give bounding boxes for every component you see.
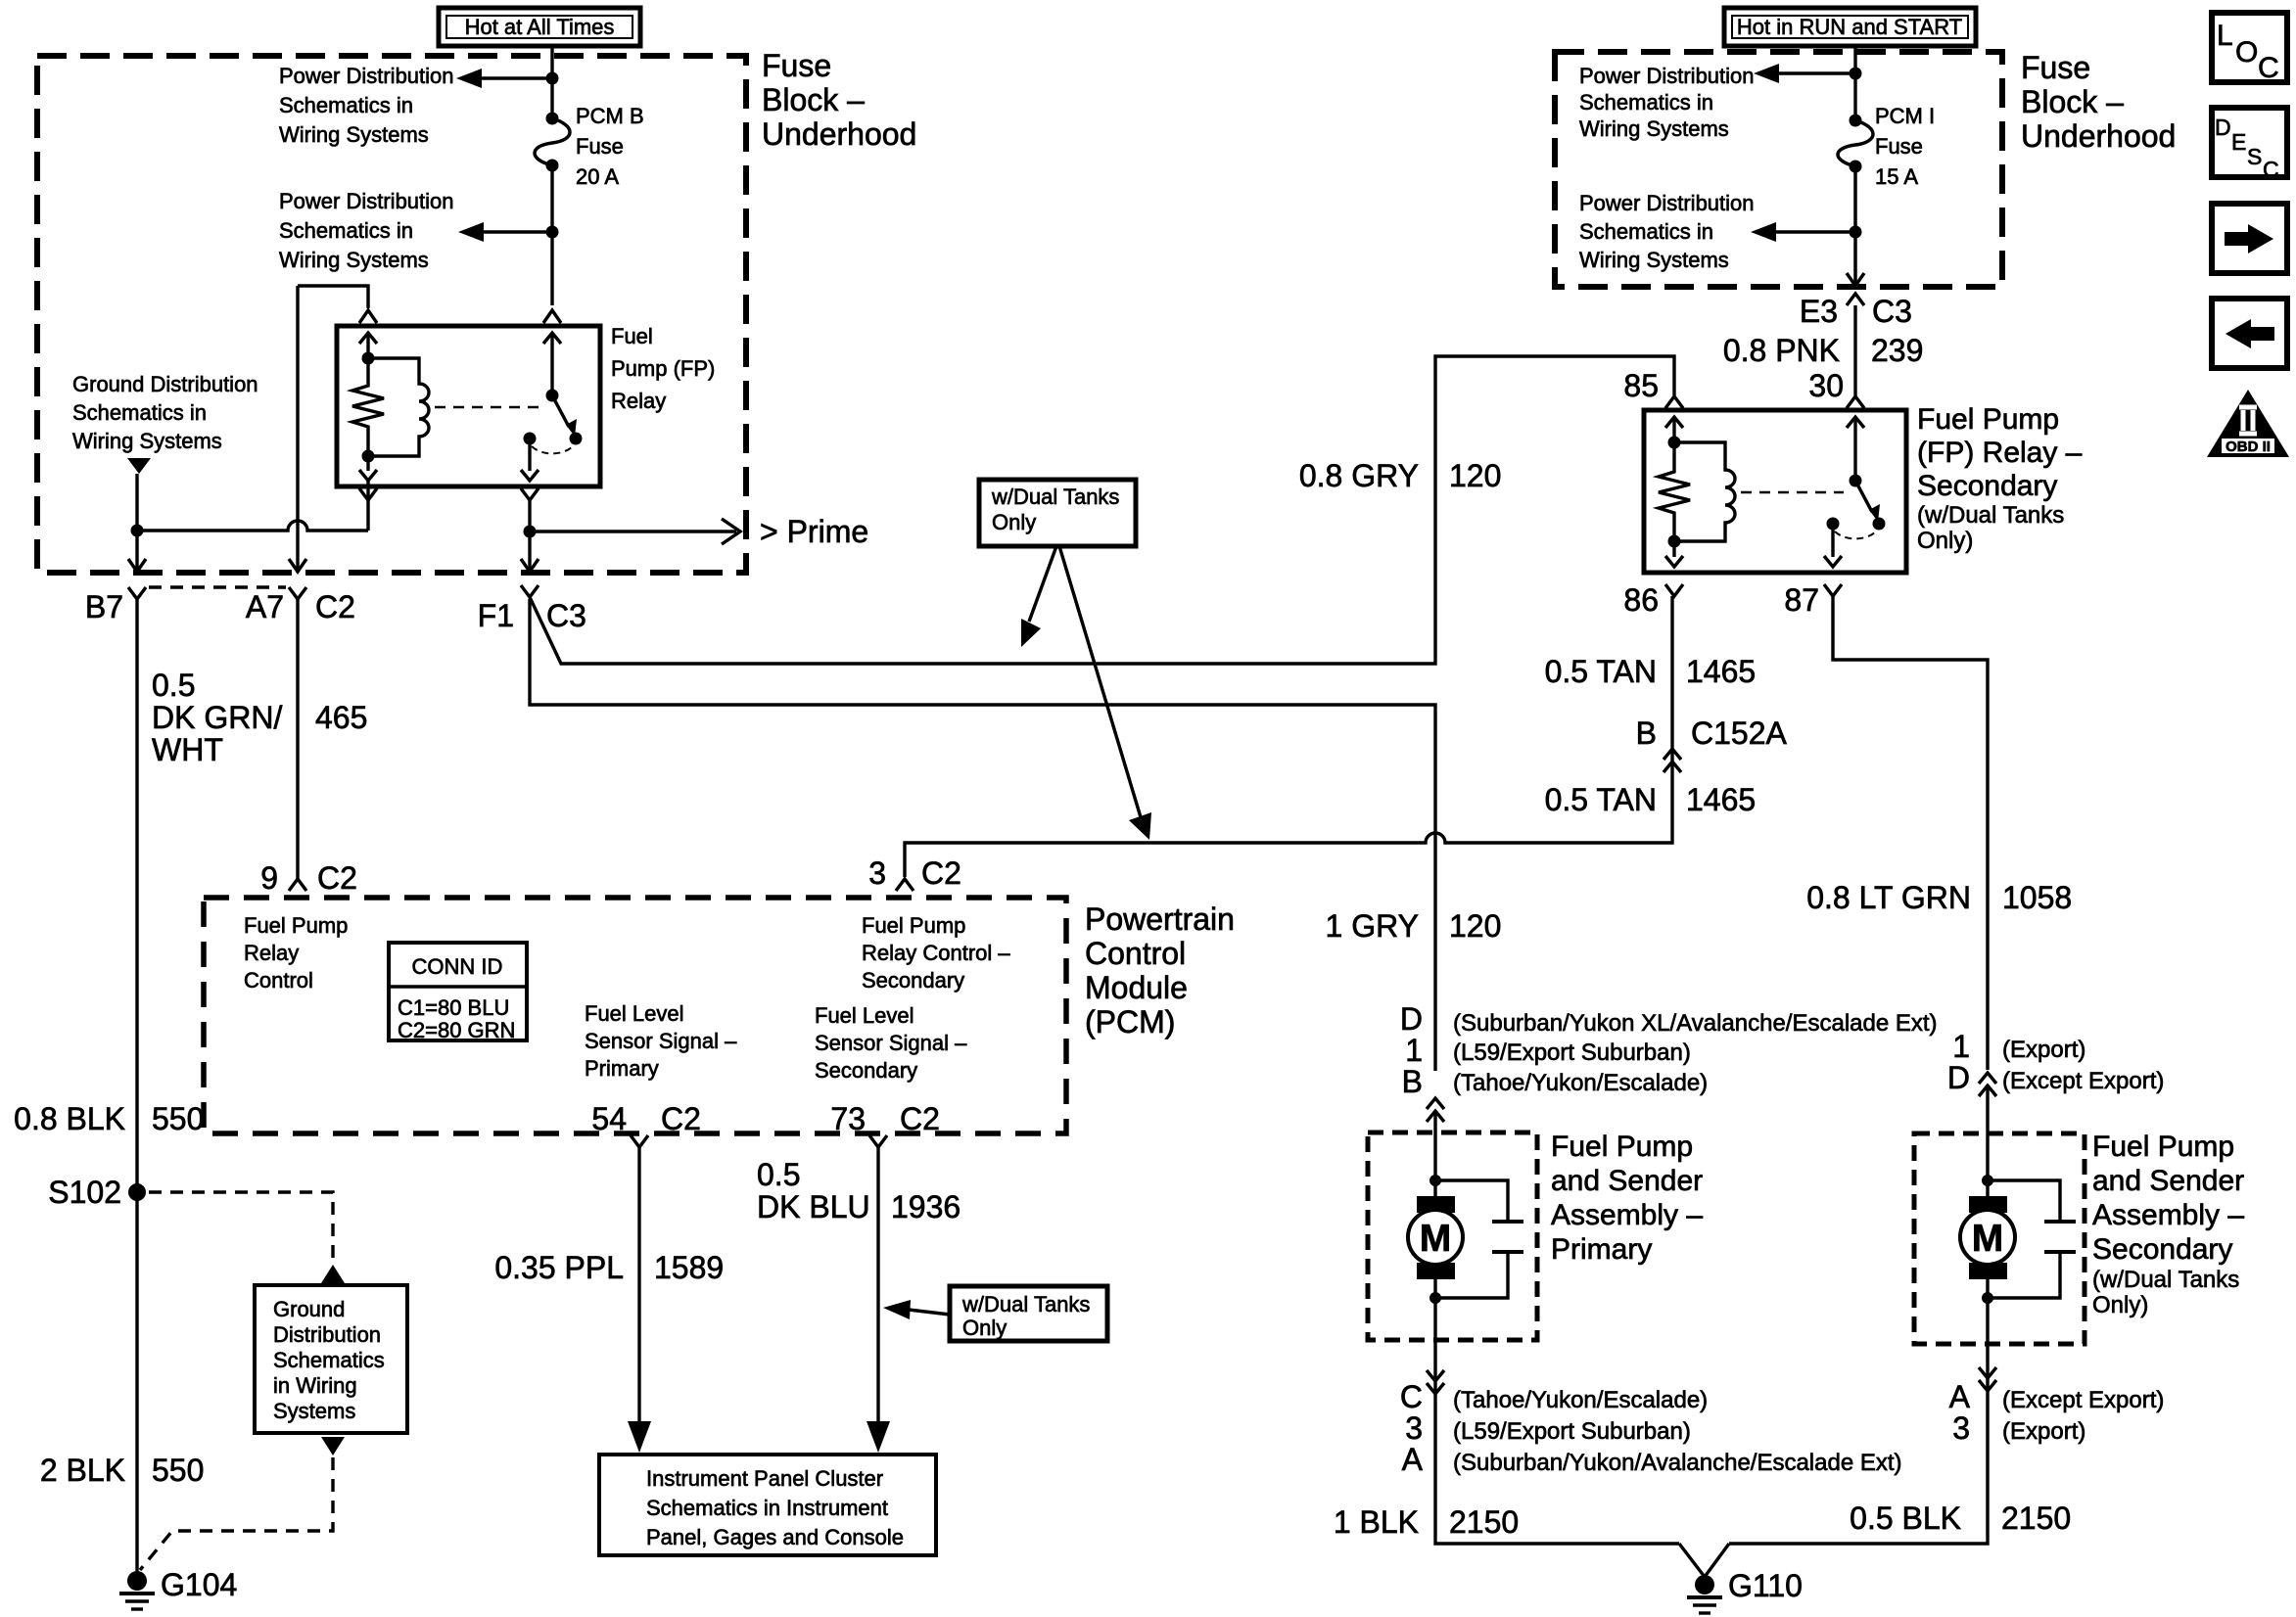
svg-text:1465: 1465 <box>1686 654 1756 689</box>
svg-text:Schematics in: Schematics in <box>279 93 413 117</box>
wire: A7 relay coil feed jog <box>298 286 368 308</box>
junction node: motor top (primary) <box>1429 1175 1441 1186</box>
svg-text:G110: G110 <box>1728 1568 1803 1603</box>
in-line connector 1/D (secondary pump feed) <box>1947 1029 2165 1096</box>
svg-text:Secondary: Secondary <box>815 1058 917 1083</box>
svg-text:550: 550 <box>152 1453 204 1488</box>
svg-text:B: B <box>1636 716 1657 751</box>
svg-text:2 BLK: 2 BLK <box>40 1453 125 1488</box>
svg-text:Secondary: Secondary <box>862 968 964 993</box>
wire: 0.5 DK GRN/WHT 465 from A7 down to PCM pin 9 <box>296 599 299 879</box>
svg-text:Block –: Block – <box>2021 84 2124 119</box>
svg-text:0.5: 0.5 <box>152 668 195 703</box>
sender capacitor-like element (secondary) <box>1988 1180 2076 1298</box>
svg-text:C2=80 GRN: C2=80 GRN <box>398 1018 515 1042</box>
svg-text:E: E <box>2231 129 2246 155</box>
svg-text:Only): Only) <box>2092 1292 2148 1318</box>
svg-text:(Except Export): (Except Export) <box>2002 1068 2164 1094</box>
arrow: to Power Distribution (upper left) <box>456 69 552 88</box>
svg-text:2150: 2150 <box>2001 1501 2071 1536</box>
relay pin chevron (coil feed, inside top) <box>359 333 377 344</box>
svg-text:(Suburban/Yukon/Avalanche/Esca: (Suburban/Yukon/Avalanche/Escalade Ext) <box>1453 1450 1902 1476</box>
label: Fuel Level Sensor Signal - Primary (PCM internal) <box>585 1001 737 1081</box>
svg-text:0.5: 0.5 <box>757 1157 800 1192</box>
fuse PCM I 15 A <box>1838 115 1873 173</box>
relay switch fixed contact (secondary) <box>1827 518 1840 531</box>
svg-text:Wiring Systems: Wiring Systems <box>1579 248 1729 272</box>
svg-text:(w/Dual Tanks: (w/Dual Tanks <box>2092 1267 2239 1293</box>
svg-text:Hot in RUN and START: Hot in RUN and START <box>1737 15 1962 39</box>
label: Fuel Pump and Sender Assembly - Secondary (w/Dual Tanks Only) <box>2092 1131 2244 1318</box>
svg-text:C2: C2 <box>315 589 355 624</box>
fuse PCM B 20 A <box>535 113 570 172</box>
relay coil L <box>368 358 429 456</box>
wire: relay output down to F1 <box>528 500 531 573</box>
svg-text:Power Distribution: Power Distribution <box>1579 191 1755 215</box>
open arrow at fuse box edge (F1) <box>521 559 539 572</box>
label: Power Distribution Schematics in Wiring Systems (left upper) <box>279 64 454 147</box>
ground G110 with converging wires <box>1679 1544 1803 1613</box>
in-line connector D/1/B (primary pump feed) <box>1400 1001 1938 1122</box>
svg-text:Power Distribution: Power Distribution <box>279 64 454 88</box>
svg-text:Relay: Relay <box>611 389 666 413</box>
svg-text:C: C <box>1400 1379 1423 1414</box>
dashed travel arc between contacts (secondary) <box>1835 531 1876 538</box>
svg-text:Fuel Pump: Fuel Pump <box>244 913 348 938</box>
junction node: lower tap <box>546 226 559 239</box>
svg-text:C: C <box>2263 157 2279 182</box>
label: Ground Distribution Schematics in Wiring Systems (left) <box>72 372 258 453</box>
svg-text:(Export): (Export) <box>2002 1418 2085 1445</box>
svg-text:85: 85 <box>1623 368 1659 403</box>
svg-text:Panel, Gages and Console: Panel, Gages and Console <box>646 1525 904 1549</box>
svg-text:(Tahoe/Yukon/Escalade): (Tahoe/Yukon/Escalade) <box>1453 1387 1708 1413</box>
connector fork below relay pin 87 <box>1824 584 1842 596</box>
svg-text:and Sender: and Sender <box>1551 1165 1703 1197</box>
in-line connector B / C152A <box>1636 716 1788 772</box>
svg-text:C3: C3 <box>546 598 586 633</box>
svg-text:DK BLU: DK BLU <box>757 1189 870 1224</box>
svg-text:Block –: Block – <box>762 82 865 117</box>
junction node on B7 wire <box>131 525 144 537</box>
relay pin chevron (85 inside top) <box>1665 417 1683 428</box>
svg-text:A: A <box>1949 1379 1971 1414</box>
arrow from w/Dual Tanks box to primary feed rail <box>1021 546 1056 647</box>
connector B7 <box>85 587 146 624</box>
relay coil L (secondary) <box>1674 442 1735 541</box>
label: 0.8 LT GRN / 1058 <box>1806 880 2072 915</box>
icon: LOC box <box>2212 13 2287 84</box>
dashed connector line C2 between B7 and A7 <box>149 585 286 589</box>
svg-text:0.8 PNK: 0.8 PNK <box>1723 333 1840 368</box>
junction node: motor top (secondary) <box>1982 1175 1993 1186</box>
wire: 0.35 PPL 1589 to instrument panel <box>628 1147 651 1453</box>
svg-text:Systems: Systems <box>273 1399 355 1423</box>
wire: fuse output down to FP relay <box>550 165 553 305</box>
svg-text:9: 9 <box>260 860 278 896</box>
label: 2 BLK 550 <box>40 1453 205 1488</box>
wire: coil branch inside secondary relay <box>1672 417 1675 468</box>
svg-text:Ground: Ground <box>273 1297 345 1321</box>
svg-text:(PCM): (PCM) <box>1085 1004 1175 1039</box>
svg-text:Only: Only <box>962 1316 1007 1340</box>
svg-text:0.5 TAN: 0.5 TAN <box>1545 782 1657 817</box>
svg-text:> Prime: > Prime <box>760 514 868 549</box>
relay switch pivot <box>546 390 559 402</box>
connector 9 / C2 at PCM <box>260 860 357 896</box>
svg-text:1936: 1936 <box>891 1189 961 1224</box>
connector fork below relay switch output <box>521 488 539 500</box>
svg-text:Fuel: Fuel <box>611 324 653 348</box>
label: 0.5 DK GRN/WHT <box>152 668 282 767</box>
svg-text:(Tahoe/Yukon/Escalade): (Tahoe/Yukon/Escalade) <box>1453 1070 1708 1096</box>
svg-text:DK GRN/: DK GRN/ <box>152 700 282 735</box>
relay actuation dashed link <box>435 406 540 409</box>
PCM dashed box <box>204 898 1066 1133</box>
svg-text:F1: F1 <box>478 598 514 633</box>
svg-text:Instrument Panel Cluster: Instrument Panel Cluster <box>646 1466 883 1491</box>
connector fork below relay (coil return) <box>359 488 377 500</box>
sender capacitor-like element (primary) <box>1435 1180 1523 1298</box>
relay U2: Fuel Pump (FP) Relay - Secondary box <box>1644 410 1906 573</box>
arrow from w/Dual Tanks box to secondary control rail <box>1059 546 1151 840</box>
arrow: to Power Distribution (upper right) <box>1754 64 1855 83</box>
svg-text:Sensor Signal –: Sensor Signal – <box>585 1029 737 1053</box>
junction node: upper tap (right) <box>1850 68 1862 80</box>
svg-text:Control: Control <box>244 968 313 993</box>
open arrow at fuse box edge (A7) <box>289 559 306 572</box>
fuel pump secondary dashed box <box>1914 1133 2085 1344</box>
svg-text:Wiring Systems: Wiring Systems <box>72 429 222 453</box>
svg-text:239: 239 <box>1871 333 1923 368</box>
svg-text:1: 1 <box>1405 1033 1423 1068</box>
in-line connector A/3 (secondary pump ground) <box>1949 1367 2165 1446</box>
svg-text:Schematics in: Schematics in <box>1579 90 1713 115</box>
svg-text:Relay Control –: Relay Control – <box>862 941 1010 965</box>
resistor R (relay) <box>352 382 384 431</box>
relay switch output chevron (inside bottom) <box>521 470 539 481</box>
svg-text:1058: 1058 <box>2002 880 2072 915</box>
dashed link: S102 to Ground Distribution box <box>149 1192 345 1283</box>
wire: 0.8 PNK 239 down to relay pin 30 <box>1853 305 1856 395</box>
svg-text:Power Distribution: Power Distribution <box>1579 64 1755 88</box>
svg-text:C152A: C152A <box>1691 716 1788 751</box>
junction node: coil top <box>362 352 375 365</box>
label: 0.5 TAN / 1465 (upper) <box>1545 654 1757 689</box>
wire: ground wire to B7 <box>135 474 138 573</box>
connector fork above relay switch pin 30 <box>543 310 561 323</box>
relay switch input chevron (30 inside top, secondary) <box>1847 417 1864 428</box>
label: Power Distribution Schematics in Wiring Systems (right upper) <box>1579 64 1755 141</box>
header box: Hot at All Times <box>439 8 640 46</box>
svg-text:G104: G104 <box>161 1567 237 1602</box>
fuse block underhood (right) dashed box <box>1555 52 2002 287</box>
svg-text:C2: C2 <box>921 855 961 891</box>
connector fork above relay pin (coil feed) <box>359 310 377 323</box>
svg-text:1589: 1589 <box>654 1250 724 1285</box>
svg-text:0.8 LT GRN: 0.8 LT GRN <box>1806 880 1971 915</box>
motor M1 (primary pump) <box>1408 1180 1463 1298</box>
wire: crossover link to relay coil return (hop over A7 wire) <box>137 521 368 531</box>
Ground Distribution Schematics box <box>255 1285 407 1433</box>
svg-text:Sensor Signal –: Sensor Signal – <box>815 1031 967 1055</box>
wire: resistor bottom to coil bottom node <box>366 431 369 471</box>
label: 0.8 BLK 550 <box>14 1101 204 1136</box>
svg-text:Schematics in: Schematics in <box>279 218 413 243</box>
wire: resistor bottom to coil bottom node (secondary) <box>1672 517 1675 557</box>
open arrow at fuse box edge (B7) <box>128 559 146 572</box>
svg-text:Fuse: Fuse <box>2021 50 2090 85</box>
svg-text:M: M <box>1972 1218 2004 1260</box>
open arrow at fuse box edge (E3) <box>1847 273 1864 286</box>
svg-text:Module: Module <box>1085 970 1188 1005</box>
wire: switch input to pivot (secondary) <box>1853 417 1856 481</box>
svg-text:550: 550 <box>152 1101 204 1136</box>
wire: coil return down to crossover <box>366 481 369 531</box>
icon: arrow left box <box>2212 299 2287 368</box>
fuse block underhood (left) dashed box <box>37 56 746 573</box>
wire: coil branch inside relay <box>366 333 369 382</box>
relay switch pivot (secondary) <box>1850 475 1862 487</box>
svg-text:OBD II: OBD II <box>2226 439 2271 455</box>
svg-text:Distribution: Distribution <box>273 1322 381 1347</box>
svg-text:(Export): (Export) <box>2002 1037 2085 1063</box>
connector fork above relay pin 85 <box>1665 396 1683 408</box>
label: Fuel Pump (FP) Relay - Secondary (w/Dual Tanks Only) <box>1917 403 2083 554</box>
svg-text:87: 87 <box>1784 582 1819 618</box>
CONN ID box <box>389 943 527 1042</box>
svg-text:Ground Distribution: Ground Distribution <box>72 372 258 396</box>
connector F1 / C3 <box>478 585 586 633</box>
svg-text:C2: C2 <box>661 1101 701 1136</box>
connector 54 / C2 <box>591 1101 701 1147</box>
label: PCM I Fuse 15 A <box>1875 104 1935 189</box>
svg-text:1465: 1465 <box>1686 782 1756 817</box>
connector 73 / C2 <box>830 1101 940 1147</box>
svg-text:Secondary: Secondary <box>2092 1233 2232 1266</box>
svg-text:in Wiring: in Wiring <box>273 1373 357 1398</box>
svg-text:(w/Dual Tanks: (w/Dual Tanks <box>1917 502 2064 529</box>
svg-text:465: 465 <box>315 700 367 735</box>
svg-text:1: 1 <box>1952 1029 1970 1064</box>
label: Fuel Pump and Sender Assembly - Primary <box>1551 1131 1703 1266</box>
ground distribution pointer triangle <box>127 458 151 474</box>
svg-text:O: O <box>2235 36 2258 69</box>
relay actuation dashed link (secondary) <box>1741 491 1844 494</box>
label: 0.8 PNK / 239 <box>1723 333 1924 368</box>
svg-text:Pump (FP): Pump (FP) <box>611 356 715 381</box>
svg-text:(Suburban/Yukon XL/Avalanche/E: (Suburban/Yukon XL/Avalanche/Escalade Ex… <box>1453 1010 1938 1037</box>
label: 0.5 DK BLU / 1936 <box>757 1157 961 1224</box>
relay coil return chevron (inside bottom) <box>359 470 377 481</box>
svg-text:Fuel Level: Fuel Level <box>815 1003 914 1028</box>
svg-text:0.5 BLK: 0.5 BLK <box>1850 1501 1961 1536</box>
relay switch blade with arrowhead (secondary) <box>1855 481 1880 522</box>
svg-text:30: 30 <box>1808 368 1844 403</box>
svg-text:C2: C2 <box>900 1101 940 1136</box>
label: 0.5 BLK / 2150 <box>1850 1501 2071 1536</box>
Instrument Panel Cluster box <box>599 1455 936 1555</box>
icon: DESC box <box>2212 108 2287 182</box>
svg-text:C3: C3 <box>1872 294 1912 329</box>
wire into secondary pump <box>1986 1086 1989 1180</box>
svg-text:B7: B7 <box>85 589 123 624</box>
junction node: Prime tap <box>524 526 537 538</box>
motor M2 (secondary pump) <box>1960 1180 2015 1298</box>
svg-text:Schematics in: Schematics in <box>72 400 207 425</box>
w/Dual Tanks Only callout box (lower) <box>950 1286 1107 1341</box>
svg-text:D: D <box>1400 1001 1423 1037</box>
svg-text:Schematics in: Schematics in <box>1579 219 1713 244</box>
wire: fuse output down to E3 <box>1853 166 1857 284</box>
arrow: to Power Distribution (lower left) <box>458 222 552 242</box>
svg-text:Fuel Level: Fuel Level <box>585 1001 684 1026</box>
svg-text:Assembly –: Assembly – <box>1551 1199 1703 1231</box>
label: Fuel Pump (FP) Relay <box>611 324 715 413</box>
svg-text:(FP) Relay –: (FP) Relay – <box>1917 437 2083 469</box>
label: Fuel Level Sensor Signal - Secondary (PCM internal) <box>815 1003 967 1083</box>
label: 1 BLK / 2150 <box>1334 1504 1519 1540</box>
svg-text:Control: Control <box>1085 936 1186 971</box>
arrow: to Power Distribution (lower right) <box>1751 222 1855 242</box>
label: Fuse Block - Underhood (right) <box>2021 50 2176 154</box>
svg-text:L: L <box>2217 20 2233 52</box>
svg-text:Wiring Systems: Wiring Systems <box>1579 116 1729 141</box>
ground G104 <box>119 1567 237 1609</box>
svg-text:S102: S102 <box>48 1175 121 1210</box>
dashed travel arc between contacts <box>532 446 573 453</box>
svg-text:Schematics: Schematics <box>273 1348 385 1372</box>
label: 0.8 GRY / 120 <box>1299 458 1502 493</box>
wire: PCM pin 3 control rail to relay pin 86 (0.5 TAN, hop over 1 GRY) <box>905 596 1672 877</box>
w/Dual Tanks Only callout box (upper) <box>979 480 1136 546</box>
svg-text:(L59/Export Suburban): (L59/Export Suburban) <box>1453 1418 1691 1445</box>
svg-text:0.8 BLK: 0.8 BLK <box>14 1101 125 1136</box>
svg-text:Only: Only <box>992 510 1036 534</box>
svg-text:1 GRY: 1 GRY <box>1326 908 1419 944</box>
label: Power Distribution Schematics in Wiring Systems (left lower) <box>279 189 454 272</box>
wire into primary pump <box>1433 1111 1436 1180</box>
svg-text:and Sender: and Sender <box>2092 1165 2244 1197</box>
splice S102 <box>48 1175 146 1210</box>
relay coil return chevron (inside bottom, secondary) <box>1665 556 1683 567</box>
svg-text:Wiring Systems: Wiring Systems <box>279 122 429 147</box>
svg-text:A7: A7 <box>246 589 284 624</box>
wire: F1 primary feed 1 GRY 120 to primary pump (rail B) <box>530 599 1435 1071</box>
svg-text:Fuse: Fuse <box>762 48 831 83</box>
label: Fuel Pump Relay Control (PCM internal) <box>244 913 348 993</box>
svg-text:Fuse: Fuse <box>576 134 624 159</box>
svg-text:Schematics in Instrument: Schematics in Instrument <box>646 1496 888 1520</box>
icon: arrow right box <box>2212 204 2287 273</box>
wire out of secondary pump bottom <box>1729 1298 1988 1544</box>
svg-text:Underhood: Underhood <box>2021 118 2176 154</box>
label: PCM B Fuse 20 A <box>576 104 644 189</box>
svg-text:(Except Export): (Except Export) <box>2002 1387 2164 1413</box>
svg-text:Underhood: Underhood <box>762 116 916 152</box>
junction node: coil bottom <box>362 450 375 463</box>
svg-text:86: 86 <box>1623 582 1659 618</box>
svg-text:Fuel Pump: Fuel Pump <box>1551 1131 1693 1163</box>
svg-text:120: 120 <box>1449 458 1501 493</box>
wire out of primary pump bottom <box>1435 1298 1679 1544</box>
svg-text:Primary: Primary <box>1551 1233 1652 1266</box>
label: Fuel Pump Relay Control - Secondary (PCM internal) <box>862 913 1010 993</box>
svg-text:PCM I: PCM I <box>1875 104 1935 128</box>
svg-text:Fuel Pump: Fuel Pump <box>862 913 965 938</box>
svg-text:D: D <box>1947 1060 1970 1095</box>
svg-text:C2: C2 <box>317 860 357 896</box>
svg-text:Wiring Systems: Wiring Systems <box>279 248 429 272</box>
svg-text:2150: 2150 <box>1449 1504 1519 1540</box>
svg-text:3: 3 <box>868 855 886 891</box>
label: 1 GRY / 120 <box>1326 908 1502 944</box>
wire: run/start feed down through PCM I fuse <box>1853 46 1856 120</box>
junction node: coil top (secondary) <box>1668 437 1681 449</box>
connector E3 / C3 <box>1800 294 1912 329</box>
svg-text:D: D <box>2215 115 2231 140</box>
junction node: motor bottom (primary) <box>1429 1292 1441 1304</box>
svg-text:3: 3 <box>1952 1410 1970 1446</box>
svg-text:M: M <box>1420 1218 1452 1260</box>
svg-text:73: 73 <box>830 1101 866 1136</box>
resistor R (secondary relay) <box>1659 468 1690 517</box>
svg-text:Only): Only) <box>1917 528 1973 554</box>
svg-text:Relay: Relay <box>244 941 299 965</box>
relay switch output chevron (inside bottom, secondary) <box>1824 556 1842 567</box>
svg-text:Fuel Pump: Fuel Pump <box>2092 1131 2234 1163</box>
relay switch moving contact (secondary) <box>1873 518 1886 531</box>
svg-text:PCM B: PCM B <box>576 104 644 128</box>
svg-text:WHT: WHT <box>152 732 223 767</box>
svg-text:C1=80 BLU: C1=80 BLU <box>398 995 509 1020</box>
junction node: upper tap <box>546 72 559 85</box>
svg-text:120: 120 <box>1449 908 1501 944</box>
connector A7 / C2 <box>246 587 355 624</box>
svg-text:S: S <box>2247 144 2262 169</box>
junction node: coil bottom (secondary) <box>1668 535 1681 548</box>
wire: 0.5 DK BLU 1936 to instrument panel <box>867 1147 890 1453</box>
svg-text:Assembly –: Assembly – <box>2092 1199 2244 1231</box>
label: Powertrain Control Module (PCM) <box>1085 901 1235 1039</box>
connector fork above relay pin 30 <box>1847 396 1864 408</box>
svg-text:54: 54 <box>591 1101 627 1136</box>
label: Fuse Block - Underhood (left) <box>762 48 916 152</box>
svg-text:Fuel Pump: Fuel Pump <box>1917 403 2059 436</box>
relay switch input chevron (inside top) <box>543 333 561 344</box>
svg-text:w/Dual Tanks: w/Dual Tanks <box>991 485 1119 509</box>
svg-text:Hot at All Times: Hot at All Times <box>465 15 615 39</box>
svg-text:1 BLK: 1 BLK <box>1334 1504 1419 1540</box>
svg-text:(L59/Export Suburban): (L59/Export Suburban) <box>1453 1039 1691 1066</box>
svg-text:E3: E3 <box>1800 294 1838 329</box>
relay U1: Fuel Pump (FP) Relay box <box>337 326 600 486</box>
svg-text:A: A <box>1402 1442 1424 1477</box>
wire: F1 branch to 0.8 GRY relay coil feed (rail A up to pin 85) <box>530 356 1674 664</box>
fuel pump primary dashed box <box>1368 1132 1537 1340</box>
svg-text:15 A: 15 A <box>1875 164 1918 189</box>
wire: Prime branch with open arrow <box>530 519 740 544</box>
svg-text:3: 3 <box>1405 1410 1423 1446</box>
svg-text:Primary: Primary <box>585 1056 659 1081</box>
relay switch blade with arrowhead <box>552 395 577 437</box>
in-line connector C/3/A (primary pump ground) <box>1400 1370 1902 1477</box>
svg-text:Secondary: Secondary <box>1917 470 2057 502</box>
arrow from lower w/Dual Tanks box to 0.5 DK BLU wire <box>883 1300 950 1319</box>
label: Power Distribution Schematics in Wiring Systems (right lower) <box>1579 191 1755 272</box>
icon: OBD II triangle <box>2207 390 2289 457</box>
wire: switch input to pivot <box>550 333 553 395</box>
